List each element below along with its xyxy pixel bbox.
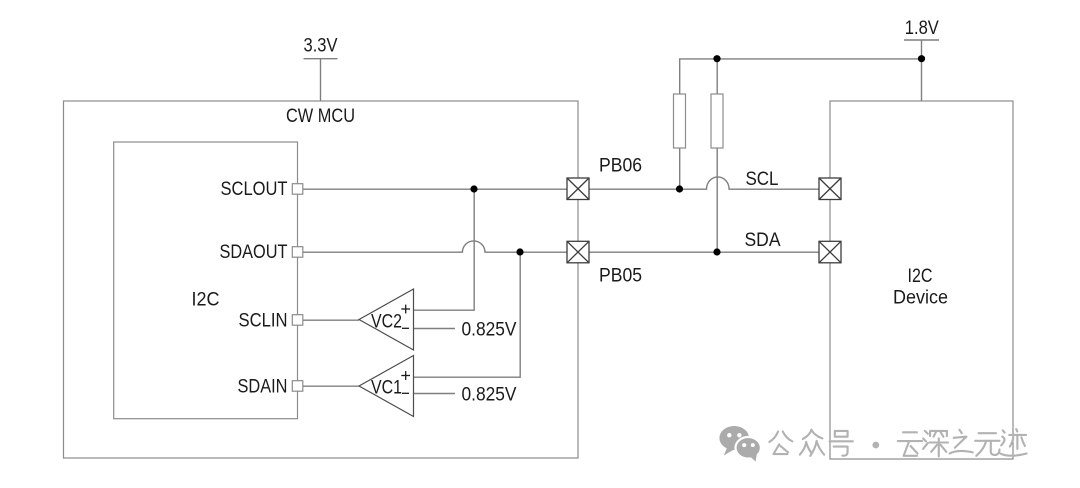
VC2 plus sign [401,305,410,314]
wire PB05 to SDA pad [589,251,819,253]
I2C inner box [114,142,298,419]
pad PB05 [567,241,589,262]
wire VC2 minus input to 0.825V [414,328,456,330]
char 深 [923,431,948,457]
svg-text:3.3V: 3.3V [304,36,338,57]
svg-text:SDAIN: SDAIN [238,377,288,398]
svg-text:SDA: SDA [745,230,781,251]
pad SCL (I2C device) [819,178,841,200]
op-amp VC2 [359,289,414,350]
junction dot SDAOUT/VC1 [516,248,523,255]
svg-text:VC2: VC2 [371,312,402,333]
1.8V supply [904,40,939,101]
svg-text:1.8V: 1.8V [905,18,939,39]
svg-text:SCLOUT: SCLOUT [221,179,288,200]
svg-text:CW MCU: CW MCU [286,106,355,127]
char 云 [898,432,922,455]
pad SDA (I2C device) [819,241,841,262]
3.3V supply [304,59,338,101]
pin SDAOUT [292,247,303,258]
watermark text 公众号·云深之无迹 (drawn as paths) [769,429,1026,456]
wire junction SDAOUT down to VC1 plus input [414,252,521,377]
middle dot [872,442,879,449]
svg-text:VC1: VC1 [371,378,402,399]
svg-text:PB05: PB05 [599,266,642,287]
char 无 [975,433,999,456]
char 众 [800,430,824,456]
resistor R2 (SDA pull-up) [716,59,718,94]
char 迹 [1001,429,1027,456]
svg-text:I2C: I2C [908,266,933,287]
char 号 [830,431,853,456]
wire SCLOUT to PB06 [303,188,567,190]
VC2 minus sign [402,327,409,329]
svg-text:0.825V: 0.825V [462,385,517,406]
svg-text:SCL: SCL [746,169,779,190]
wire PB06 to SCL pad with hop over R2 wire [589,177,819,189]
junction dot 1.8V/top rail [918,55,925,62]
wire SDAOUT to PB05 with hop over vertical at 473.5 [303,241,567,252]
op-amp VC1 [359,356,414,417]
wire SDAIN to VC1 output [303,385,359,387]
svg-text:SDAOUT: SDAOUT [220,242,288,263]
watermark wechat icon [719,426,761,462]
char 公 [769,431,792,454]
char 之 [950,430,973,454]
pad PB06 [567,178,589,200]
wire VC1 minus input to 0.825V [414,393,456,395]
junction dot R1/SCL [676,185,683,192]
svg-text:0.825V: 0.825V [462,320,517,341]
svg-text:Device: Device [893,288,948,309]
VC1 minus sign [402,392,409,394]
svg-text:PB06: PB06 [599,156,642,177]
junction dot R2/SDA [713,248,720,255]
pin SCLOUT [292,184,303,195]
VC1 plus sign [401,371,410,380]
wire SCLIN to VC2 output [303,319,359,321]
wire junction SCLOUT down to VC2 plus input [414,189,475,310]
top rail wire [680,59,922,94]
pin SCLIN [292,315,303,326]
junction dot SCLOUT/VC2 [470,185,477,192]
resistor R1 (SCL pull-up) [679,148,681,189]
I2C Device box [830,101,1013,459]
svg-text:I2C: I2C [192,290,220,311]
pin SDAIN [292,381,303,392]
CW MCU box [64,101,579,458]
svg-text:SCLIN: SCLIN [239,311,288,332]
junction dot R2/top rail [713,55,720,62]
